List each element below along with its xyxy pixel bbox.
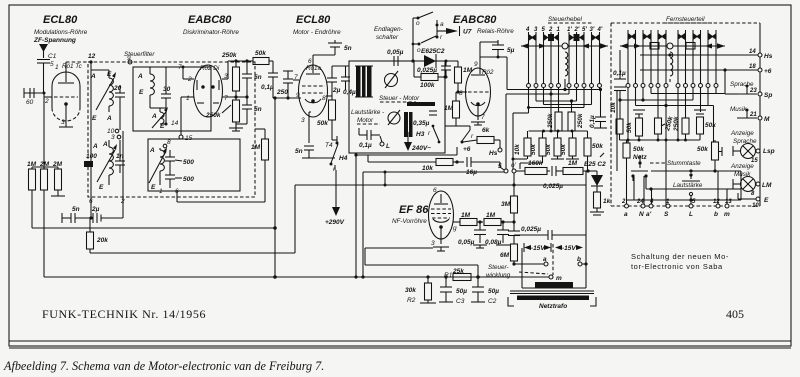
capacitor 5u bbox=[492, 44, 504, 46]
resistor 1k bbox=[596, 186, 598, 192]
capacitor 0,4u bbox=[341, 76, 350, 78]
wire pin9 up bbox=[480, 41, 498, 43]
svg-text:15: 15 bbox=[185, 135, 193, 142]
svg-text:C1: C1 bbox=[48, 53, 57, 60]
switch +6 bbox=[456, 125, 470, 127]
svg-text:50k: 50k bbox=[317, 120, 328, 127]
svg-text:250: 250 bbox=[276, 89, 288, 96]
svg-text:Lautstärke -: Lautstärke - bbox=[351, 109, 384, 116]
svg-text:m: m bbox=[556, 275, 562, 282]
svg-text:m: m bbox=[724, 211, 730, 218]
svg-text:100k: 100k bbox=[420, 82, 435, 89]
right rail x586 bbox=[585, 171, 587, 288]
motor M2 (Lautstaerke) bbox=[388, 112, 400, 124]
pair wire y94 bbox=[506, 93, 569, 95]
svg-text:A: A bbox=[106, 115, 112, 122]
lamp Anzeige Musik bbox=[741, 177, 756, 192]
svg-text:Anzeige: Anzeige bbox=[730, 130, 754, 137]
svg-text:50k: 50k bbox=[592, 143, 603, 150]
wire cathode row bbox=[309, 157, 335, 159]
svg-text:50k: 50k bbox=[705, 122, 716, 129]
wire 5u to pin9 bbox=[480, 56, 507, 58]
col 1 wire down bbox=[558, 88, 560, 113]
Netztrafo secondary bbox=[517, 296, 589, 301]
svg-text:o': o' bbox=[511, 162, 517, 169]
svg-text:A: A bbox=[102, 141, 108, 148]
trafo feed left bbox=[521, 248, 523, 288]
relay tube grid bbox=[468, 91, 489, 93]
dashed center line bbox=[552, 244, 554, 275]
feed wire from relay bbox=[506, 57, 508, 90]
filter exit wires bbox=[90, 197, 92, 218]
svg-text:0,025µ: 0,025µ bbox=[521, 226, 541, 233]
tie wire y66 bbox=[332, 65, 349, 67]
svg-text:1: 1 bbox=[159, 188, 163, 195]
svg-text:10k: 10k bbox=[422, 165, 433, 172]
svg-text:E: E bbox=[151, 184, 156, 191]
resistor 50k Netz bbox=[623, 143, 630, 158]
svg-text:schalter: schalter bbox=[376, 34, 399, 41]
svg-text:A: A bbox=[149, 147, 155, 154]
node under label bbox=[128, 60, 132, 64]
wire row y200 bbox=[627, 199, 742, 201]
svg-text:10: 10 bbox=[752, 203, 759, 209]
vertical x363 bbox=[362, 172, 364, 277]
svg-text:Rö1a: Rö1a bbox=[306, 65, 322, 72]
capacitor 0,025u horizontal to rail bbox=[547, 230, 549, 240]
svg-text:500: 500 bbox=[183, 176, 194, 183]
svg-text:5n: 5n bbox=[254, 74, 262, 81]
svg-text:10k: 10k bbox=[610, 102, 617, 113]
svg-text:2: 2 bbox=[44, 98, 49, 105]
resistor 250k lower bbox=[233, 100, 240, 122]
svg-text:2M: 2M bbox=[39, 161, 50, 168]
svg-text:500: 500 bbox=[183, 159, 194, 166]
wire 1M col corner bbox=[264, 161, 266, 202]
svg-text:U7: U7 bbox=[463, 29, 472, 36]
svg-text:Fernsteuerteil: Fernsteuerteil bbox=[666, 16, 705, 23]
contact columns bbox=[528, 32, 530, 83]
svg-text:8: 8 bbox=[167, 139, 171, 146]
svg-text:250k: 250k bbox=[673, 116, 680, 132]
variable coil L2 bbox=[109, 147, 113, 175]
capacitor 5n cathode bbox=[304, 145, 314, 147]
wire steuerhebel col4 down bbox=[512, 113, 514, 169]
long bus y228 bbox=[32, 227, 275, 229]
capacitor 5n anode top bbox=[328, 42, 342, 44]
ground under tube1 bbox=[59, 126, 73, 128]
resistor 1M b bbox=[453, 101, 460, 118]
capacitor 250 bbox=[283, 78, 293, 80]
svg-text:50k: 50k bbox=[697, 146, 708, 153]
EF86 plate bbox=[434, 203, 448, 205]
svg-text:Relais-Röhre: Relais-Röhre bbox=[477, 28, 514, 35]
svg-text:Rö1 Tc: Rö1 Tc bbox=[62, 63, 83, 70]
svg-text:C3: C3 bbox=[456, 298, 465, 305]
tube1 cathode bbox=[64, 102, 68, 106]
svg-text:o: o bbox=[416, 20, 420, 27]
svg-text:14: 14 bbox=[749, 49, 756, 55]
svg-text:0,1µ: 0,1µ bbox=[589, 115, 596, 128]
svg-text:R2: R2 bbox=[407, 297, 416, 304]
lever pivot bbox=[562, 43, 568, 49]
svg-text:1k: 1k bbox=[603, 198, 611, 205]
fern wire y100 bbox=[642, 88, 644, 101]
wire to U7 bbox=[436, 20, 438, 37]
svg-text:9: 9 bbox=[474, 61, 478, 68]
measure arrows -15V -15V bbox=[523, 243, 525, 252]
svg-text:Hs: Hs bbox=[489, 150, 498, 157]
capacitor 60 bbox=[23, 88, 25, 98]
relay tube cathode bbox=[476, 102, 480, 106]
svg-text:4: 4 bbox=[525, 27, 530, 33]
lamp Anzeige Sprache bbox=[741, 144, 756, 159]
fern lever coil bbox=[670, 52, 673, 76]
capacitor 50u C3 bbox=[444, 275, 447, 278]
svg-text:9: 9 bbox=[127, 55, 131, 62]
svg-text:3: 3 bbox=[431, 240, 435, 247]
svg-text:L: L bbox=[386, 143, 390, 150]
capacitor 0,025u vertical bbox=[508, 230, 520, 232]
col 2 wire down bbox=[550, 88, 552, 132]
svg-text:1M: 1M bbox=[251, 144, 261, 151]
svg-text:Steuer-: Steuer- bbox=[488, 264, 509, 271]
motor winding core 1 bbox=[356, 66, 361, 97]
svg-text:a': a' bbox=[646, 211, 652, 218]
motor winding core 2 bbox=[404, 112, 408, 137]
svg-text:Diskriminator-Röhre: Diskriminator-Röhre bbox=[183, 29, 239, 36]
fern circles row bbox=[626, 84, 630, 88]
tube3 plate bbox=[306, 73, 320, 75]
inner box upper bbox=[133, 67, 211, 131]
capacitor 0,08u bbox=[497, 229, 509, 231]
svg-text:1': 1' bbox=[567, 27, 572, 33]
svg-text:Rö2 Di: Rö2 Di bbox=[200, 65, 220, 72]
svg-text:a: a bbox=[624, 211, 628, 218]
wire 1M down to bus bbox=[31, 190, 33, 228]
svg-text:21: 21 bbox=[749, 112, 757, 118]
svg-text:Musik: Musik bbox=[730, 106, 747, 113]
svg-text:5: 5 bbox=[498, 163, 502, 170]
svg-text:b: b bbox=[577, 256, 581, 263]
tuning arrow L1 bbox=[96, 78, 114, 110]
contact arrows bbox=[529, 34, 534, 41]
wiper mark bbox=[721, 147, 723, 156]
svg-text:Sp: Sp bbox=[764, 92, 772, 99]
svg-text:0,025µ: 0,025µ bbox=[543, 183, 563, 190]
svg-text:N: N bbox=[639, 211, 644, 218]
svg-text:250k: 250k bbox=[221, 52, 237, 59]
svg-text:6k: 6k bbox=[482, 127, 490, 134]
resistor 20k bbox=[87, 232, 94, 249]
svg-text:A: A bbox=[92, 143, 98, 150]
relay U7 arrow bbox=[437, 30, 446, 32]
right column vertical bbox=[740, 171, 742, 200]
svg-text:50k: 50k bbox=[530, 144, 537, 155]
variable coil L1 bbox=[109, 78, 113, 106]
tuning arrow L2 bbox=[97, 150, 115, 182]
diode plates inside bbox=[196, 80, 198, 90]
wire pin6 plate top bbox=[313, 54, 335, 56]
svg-text:EABC80: EABC80 bbox=[453, 14, 497, 26]
svg-text:Motor: Motor bbox=[357, 117, 374, 124]
wire b terminal bbox=[578, 262, 582, 266]
wire row y189 bbox=[646, 188, 741, 190]
svg-text:7: 7 bbox=[481, 114, 485, 121]
svg-text:ECL80: ECL80 bbox=[43, 14, 78, 26]
capacitor 5n upper bbox=[242, 73, 252, 75]
fern lever pivot bbox=[667, 43, 673, 49]
capacitor 5n lower bbox=[242, 104, 252, 106]
EF86 grids bbox=[431, 208, 451, 210]
svg-text:ECL80: ECL80 bbox=[296, 14, 331, 26]
col 4p wire stub bbox=[599, 88, 601, 90]
svg-text:A: A bbox=[137, 73, 143, 80]
motor winding core 2 top bar bbox=[407, 102, 435, 106]
switch Sprache bbox=[737, 93, 757, 95]
terminal L bbox=[380, 142, 384, 146]
wire y265 bbox=[365, 264, 478, 266]
EF86 cathode bbox=[439, 225, 443, 229]
wire row y172 bbox=[626, 164, 628, 206]
resistor 250k upper bbox=[233, 67, 240, 91]
capacitor over 50k b fern bbox=[694, 109, 706, 111]
svg-text:E: E bbox=[99, 184, 104, 191]
svg-text:T4: T4 bbox=[325, 142, 333, 149]
capacitor over 50k a fern bbox=[633, 109, 645, 111]
lever coil bbox=[565, 52, 568, 76]
wire y98 to pin9 bbox=[273, 97, 301, 99]
svg-text:5': 5' bbox=[582, 27, 587, 33]
box Steuer-Motor assembly bbox=[349, 61, 445, 153]
svg-text:50k: 50k bbox=[255, 50, 266, 57]
svg-text:S: S bbox=[664, 211, 669, 218]
svg-text:E: E bbox=[139, 89, 144, 96]
dashed box edges bbox=[611, 22, 760, 24]
svg-text:a: a bbox=[543, 256, 547, 263]
svg-text:10k: 10k bbox=[514, 144, 521, 155]
contact columns bbox=[627, 30, 629, 84]
svg-text:+6: +6 bbox=[463, 146, 471, 153]
terminal circles bbox=[625, 204, 629, 208]
svg-text:2M: 2M bbox=[52, 161, 63, 168]
svg-text:L: L bbox=[689, 211, 693, 218]
svg-text:5: 5 bbox=[50, 61, 54, 68]
terminal Hs bbox=[499, 140, 501, 148]
resistor 50k cathode bbox=[329, 100, 336, 120]
motor M1 (Steuer-Motor) bbox=[385, 74, 398, 87]
svg-text:250k: 250k bbox=[577, 113, 584, 129]
junction row y97 bbox=[234, 95, 237, 98]
capacitor 0,1u motor bbox=[366, 130, 368, 140]
svg-text:-15V: -15V bbox=[531, 245, 545, 252]
capacitor 50u C2 bbox=[477, 277, 479, 287]
Netztrafo brackets bbox=[508, 297, 514, 306]
svg-text:tor-Electronic von Saba: tor-Electronic von Saba bbox=[631, 262, 723, 271]
svg-text:50k: 50k bbox=[626, 122, 633, 133]
svg-text:Lsp: Lsp bbox=[763, 148, 775, 155]
svg-text:50k: 50k bbox=[560, 144, 567, 155]
svg-text:1: 1 bbox=[186, 95, 190, 102]
wires 500 caps bbox=[169, 150, 171, 157]
terminal o' bbox=[512, 169, 516, 173]
svg-text:1M: 1M bbox=[463, 67, 473, 74]
fern bank bus y140 bbox=[620, 139, 701, 141]
svg-text:5µ: 5µ bbox=[507, 47, 515, 54]
ground under 1k bbox=[596, 208, 598, 212]
wire y155 from motor box bbox=[355, 153, 357, 155]
ground 0,05u bbox=[473, 244, 487, 246]
wire 2M down to bottom bus bbox=[43, 190, 45, 277]
relay tube plate bbox=[471, 74, 485, 76]
capacitor 0,05u bbox=[474, 229, 486, 231]
svg-text:1M: 1M bbox=[568, 160, 578, 167]
svg-text:C2: C2 bbox=[488, 298, 497, 305]
bus y185 bbox=[295, 184, 586, 186]
svg-text:0,05µ: 0,05µ bbox=[387, 49, 404, 56]
antenna symbol bbox=[39, 44, 48, 52]
svg-text:g: g bbox=[453, 225, 457, 232]
wire 0,1u down bus bbox=[274, 98, 276, 277]
svg-text:14: 14 bbox=[171, 120, 179, 127]
svg-text:3: 3 bbox=[111, 134, 115, 141]
inner box lower bbox=[148, 139, 240, 191]
svg-text:50µ: 50µ bbox=[488, 288, 499, 295]
capacitor 500 a bbox=[165, 156, 175, 158]
svg-text:0,05µ: 0,05µ bbox=[458, 239, 475, 246]
resistor 100k bbox=[421, 74, 438, 81]
wire pin3 up to plate line bbox=[227, 61, 229, 79]
svg-text:5n: 5n bbox=[254, 106, 262, 113]
svg-text:wicklung: wicklung bbox=[486, 272, 511, 279]
svg-text:Anzeige: Anzeige bbox=[730, 163, 754, 170]
switch upper (Endlagen) bbox=[417, 17, 420, 20]
svg-text:-15V: -15V bbox=[562, 245, 576, 252]
svg-text:8: 8 bbox=[322, 95, 326, 102]
pair wire y104.5 bbox=[543, 88, 545, 105]
wire y162 with 10k bbox=[368, 161, 436, 163]
capacitor 0,025u row bbox=[551, 166, 553, 176]
svg-text:Endlagen-: Endlagen- bbox=[374, 26, 403, 33]
wire y172 long bbox=[363, 171, 504, 173]
pair wire y107.5 bbox=[528, 88, 530, 114]
svg-text:Stummtaste: Stummtaste bbox=[667, 160, 701, 167]
hatched pads bbox=[650, 43, 659, 50]
switch Stummtaste bbox=[689, 173, 692, 176]
svg-text:6: 6 bbox=[433, 187, 437, 194]
svg-text:20k: 20k bbox=[96, 237, 108, 244]
tube EF86 bbox=[429, 191, 454, 239]
svg-text:3: 3 bbox=[301, 117, 305, 124]
arrow 240V bbox=[407, 132, 409, 142]
ground relay tube bbox=[471, 121, 485, 123]
svg-text:Lautstärke: Lautstärke bbox=[673, 182, 703, 189]
capacitor C1/5 bbox=[37, 59, 50, 61]
wire pin2 down bbox=[43, 93, 45, 167]
svg-text:+6: +6 bbox=[764, 68, 772, 75]
svg-text:Netztrafo: Netztrafo bbox=[539, 303, 567, 310]
wire plate to 1M bbox=[453, 221, 460, 223]
filter left column wires bbox=[90, 70, 92, 197]
wire bus253 corner up bbox=[294, 185, 296, 253]
svg-text:2µ: 2µ bbox=[332, 87, 341, 94]
svg-text:7: 7 bbox=[178, 64, 182, 71]
svg-text:1M: 1M bbox=[461, 212, 471, 219]
svg-text:Schaltung der neuen Mo-: Schaltung der neuen Mo- bbox=[631, 252, 729, 261]
ground under 2M b bbox=[57, 190, 59, 196]
dashed wire tube1 to filter bbox=[66, 61, 88, 63]
svg-text:250k: 250k bbox=[205, 112, 221, 119]
switch Netz bbox=[638, 161, 641, 164]
resistor 1M a bbox=[455, 67, 462, 83]
svg-text:30: 30 bbox=[163, 86, 171, 93]
svg-text:a: a bbox=[440, 21, 444, 28]
switch Musik bbox=[737, 117, 757, 119]
fern wire y93.5 bbox=[650, 88, 652, 94]
fern lever bar bbox=[620, 45, 725, 47]
fern wire y105.5 bbox=[635, 88, 637, 106]
node 8 bbox=[163, 144, 167, 148]
tube EABC80 Roe2z bbox=[466, 68, 491, 116]
tube ECL80 Roe1 bbox=[52, 72, 80, 108]
ground EF86 bbox=[433, 246, 449, 248]
capacitor 0,35u bbox=[429, 110, 437, 112]
svg-text:1M: 1M bbox=[486, 212, 496, 219]
svg-text:EF 86: EF 86 bbox=[399, 204, 429, 216]
svg-text:23: 23 bbox=[749, 88, 757, 94]
long bottom bus y277 bbox=[44, 276, 549, 278]
svg-text:LM: LM bbox=[762, 182, 772, 189]
svg-text:M: M bbox=[764, 116, 770, 123]
Netztrafo core bbox=[510, 290, 594, 292]
tube EABC80 Roe2 bbox=[194, 65, 223, 117]
svg-text:Motor - Endröhre: Motor - Endröhre bbox=[293, 29, 341, 36]
node 15 bbox=[179, 135, 183, 139]
svg-text:0,4µ: 0,4µ bbox=[343, 89, 356, 96]
Steuerwicklung winding bar bbox=[535, 282, 573, 288]
grid bus to resistors bbox=[32, 166, 58, 168]
svg-text:+290V: +290V bbox=[325, 219, 345, 226]
svg-text:ZF-Spannung: ZF-Spannung bbox=[33, 37, 76, 44]
svg-text:60: 60 bbox=[26, 99, 34, 106]
wire to Hs terminal bbox=[640, 54, 758, 56]
svg-text:30k: 30k bbox=[405, 287, 416, 294]
svg-text:E: E bbox=[92, 115, 97, 122]
svg-text:EABC80: EABC80 bbox=[188, 14, 232, 26]
svg-text:FUNK-TECHNIK Nr. 14/1956: FUNK-TECHNIK Nr. 14/1956 bbox=[42, 307, 206, 321]
svg-text:5n: 5n bbox=[295, 148, 303, 155]
contact arrows fern bbox=[628, 33, 633, 40]
svg-text:NF-Vorröhre: NF-Vorröhre bbox=[392, 218, 427, 225]
wires between blocks bbox=[616, 90, 618, 171]
wire a terminal bbox=[514, 263, 544, 265]
filter wire top left bbox=[90, 62, 92, 70]
capacitor 2u bbox=[327, 77, 337, 79]
svg-text:18: 18 bbox=[749, 64, 756, 70]
relay tube right pin wire bbox=[505, 94, 507, 169]
svg-text:6: 6 bbox=[308, 58, 312, 65]
tube1 grid dashes bbox=[54, 96, 78, 98]
capacitor 100 black bbox=[84, 161, 93, 167]
diode E25C2 bbox=[596, 171, 598, 175]
svg-text:50k: 50k bbox=[545, 144, 552, 155]
svg-text:Sprache: Sprache bbox=[730, 81, 754, 88]
tube1 top plate bbox=[65, 62, 67, 82]
svg-text:1M: 1M bbox=[27, 161, 37, 168]
wire cap60 to pin2 bbox=[24, 92, 44, 94]
plate wire y61 bbox=[228, 60, 253, 62]
tube ECL80 Roe3 bbox=[299, 65, 328, 117]
